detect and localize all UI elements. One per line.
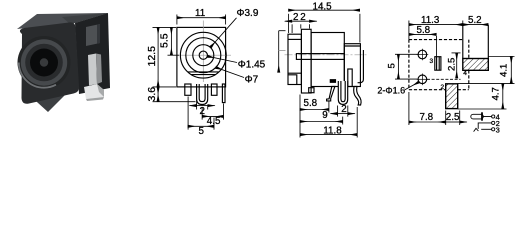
leader phi1.45 [207, 56, 237, 62]
svg-text:4.7: 4.7 [490, 87, 501, 100]
view3 hole 1 [417, 49, 429, 61]
dim 5.8 view3 [409, 34, 437, 56]
svg-text:3: 3 [430, 58, 434, 65]
view1 chord line lower [191, 74, 216, 76]
svg-text:2: 2 [200, 106, 205, 117]
svg-text:5: 5 [199, 126, 205, 137]
dim 4.1 right [458, 57, 515, 84]
svg-text:5.8: 5.8 [304, 98, 318, 109]
view2 main body [311, 33, 344, 87]
dim 9 view2 [300, 117, 343, 125]
view2 flange plate [301, 29, 311, 93]
schematic pin labels [496, 113, 500, 135]
svg-text:2: 2 [341, 104, 346, 115]
schematic pin3 terminal [492, 128, 495, 131]
photo: front flange [20, 22, 79, 103]
view2 boss rect [288, 34, 301, 84]
view2 lug hole [330, 80, 335, 83]
svg-text:5.8: 5.8 [417, 25, 431, 36]
view1 pin far right thin [222, 84, 225, 103]
dim 11.3 [409, 21, 463, 40]
svg-text:2: 2 [300, 12, 305, 23]
svg-text:11.8: 11.8 [323, 126, 342, 137]
svg-text:9: 9 [322, 110, 327, 121]
schematic switch caret [474, 128, 479, 131]
dim 5.8 view2 [300, 95, 329, 138]
svg-text:3: 3 [496, 125, 500, 134]
leader phi3.9 [210, 18, 236, 48]
view2 step inner line [344, 45, 360, 47]
schematic pin4 terminal [492, 115, 495, 118]
svg-text:Φ3.9: Φ3.9 [237, 8, 259, 19]
view3 window verticals [462, 25, 464, 59]
view2 curved pin [354, 87, 361, 106]
dim 4.5 bottom [202, 104, 223, 120]
photo: pin vertical [88, 54, 102, 86]
view2 rear shield leg [358, 50, 364, 83]
photo: jack top face [17, 13, 108, 29]
svg-text:3.6: 3.6 [146, 87, 158, 102]
view2 centerline [285, 54, 367, 56]
view2 dim texts [293, 2, 347, 137]
photo: bottom wedge corner [27, 92, 68, 112]
leader phi7 [216, 67, 244, 77]
view3 hatched pad 4 [463, 59, 489, 71]
leader 2-phi1.6 [405, 82, 420, 90]
view2 bore bottom line [288, 72, 301, 74]
dim 2 bottom (center pin width) [190, 100, 215, 110]
svg-text:2: 2 [441, 84, 445, 91]
svg-text:4.5: 4.5 [207, 116, 221, 127]
svg-text:5.2: 5.2 [468, 15, 482, 26]
dim 2.5 mid [427, 53, 461, 79]
photo: barrel rings [18, 36, 71, 89]
svg-text:12.5: 12.5 [146, 46, 158, 67]
dim 7.8 and 2.5 bottom [409, 92, 467, 125]
svg-text:7.8: 7.8 [420, 112, 434, 123]
schematic pin3 wire [481, 128, 491, 130]
view1 chord line upper [188, 71, 219, 73]
svg-text:2: 2 [293, 12, 298, 23]
svg-text:5.5: 5.5 [159, 33, 171, 48]
schematic pin4 wire [483, 116, 491, 118]
view3 hole 2 [417, 74, 429, 86]
schematic symbol [471, 112, 495, 131]
photo: jack right side body [75, 13, 110, 94]
view2 plate slot [309, 88, 314, 93]
photo: pin foot [84, 84, 104, 101]
schematic pin2 wire [478, 123, 491, 129]
dim 5 bottom [188, 97, 214, 130]
view3 dashed outline [409, 40, 469, 90]
schematic pin2 terminal [492, 121, 495, 124]
view2 bore shoulder [288, 75, 297, 85]
svg-text:4.1: 4.1 [499, 64, 510, 77]
view2 bore top line [288, 38, 301, 40]
svg-text:5: 5 [386, 63, 397, 68]
dim 5.2 [463, 24, 489, 26]
view2 center pin [296, 54, 344, 60]
view1 pin center U [197, 84, 208, 105]
dim 11 top [177, 15, 226, 25]
svg-text:Φ1.45: Φ1.45 [238, 60, 266, 71]
view3 hatched pad 2 [446, 84, 458, 109]
view2 step rect [344, 44, 360, 87]
dim 12.5 left [153, 27, 177, 87]
dim 2,2 [285, 21, 317, 33]
schematic barrel plug [471, 114, 484, 119]
svg-text:14.5: 14.5 [313, 2, 333, 13]
view1 pin left [185, 84, 191, 95]
view1 centerline horizontal [179, 54, 231, 56]
phi7 pointer into side view [279, 31, 286, 73]
view1 body square [177, 27, 226, 87]
view1 circle phi1.45 center pin [199, 51, 207, 59]
view1 pin right [211, 84, 217, 95]
view1 centerline vertical [202, 21, 204, 83]
dim 5.5 left [153, 27, 180, 55]
view3 pin 3 rect [435, 57, 441, 70]
svg-text:2.5: 2.5 [446, 112, 460, 123]
svg-text:Φ7: Φ7 [245, 74, 259, 85]
svg-text:11: 11 [195, 8, 205, 19]
photo: top-right notch [86, 24, 100, 46]
dim 5 holes [395, 54, 418, 79]
dim 3.6 left [153, 87, 196, 102]
dim 14.5 [289, 10, 360, 42]
dim 4.7 right [458, 84, 507, 109]
view1 circle phi3.9 [193, 45, 214, 66]
dim 11.8 view2 [300, 107, 357, 138]
svg-text:2.5: 2.5 [446, 58, 457, 71]
svg-text:4: 4 [463, 70, 467, 77]
view1 circle phi10 boss [180, 32, 226, 78]
svg-text:2-Φ1.6: 2-Φ1.6 [377, 85, 405, 95]
view1 circle phi7 [186, 38, 221, 73]
view1 dim texts [146, 8, 266, 137]
view2 angled pin [327, 87, 335, 101]
dim 2 view2 pin [331, 106, 355, 117]
schematic center pin bar [481, 112, 483, 120]
view3 dim texts [377, 15, 509, 123]
view2 U pin [338, 81, 347, 104]
view2 inner post [348, 69, 352, 87]
